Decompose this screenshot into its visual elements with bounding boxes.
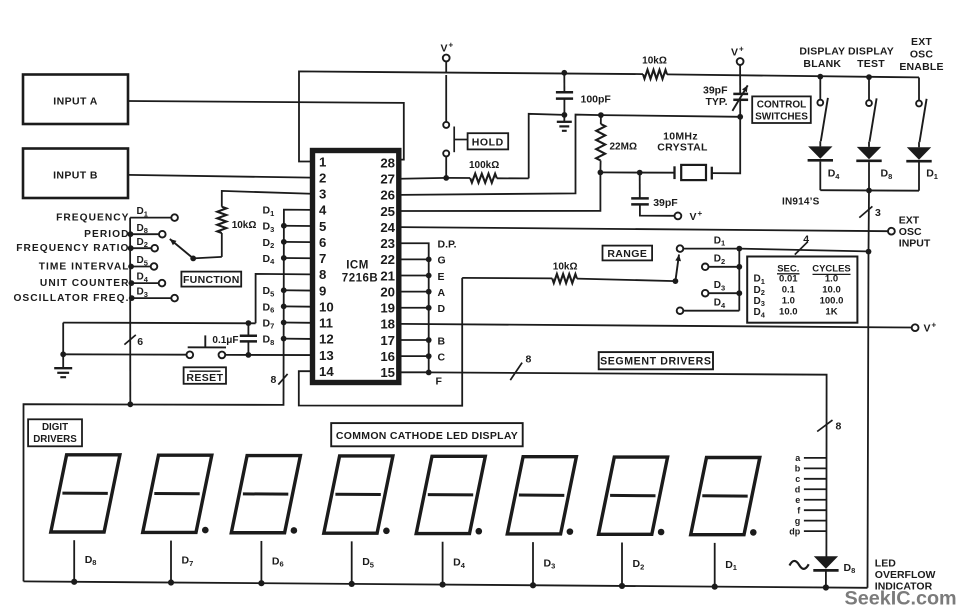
7-segment digit D4 — [416, 456, 485, 533]
svg-text:8: 8 — [319, 267, 326, 282]
svg-text:DRIVERS: DRIVERS — [33, 434, 77, 445]
junction D7 bus — [281, 320, 287, 326]
pushbutton HOLD — [445, 157, 447, 178]
digit lead D2 — [621, 543, 623, 586]
svg-text:14: 14 — [319, 364, 334, 379]
svg-text:E: E — [438, 271, 445, 283]
svg-text:SEGMENT DRIVERS: SEGMENT DRIVERS — [600, 356, 711, 368]
switch arm S5 range — [673, 278, 679, 284]
crystal Y1 10MHz — [673, 166, 675, 179]
resistor R4 22M — [600, 115, 602, 124]
terminal V+ at 39pF — [675, 213, 682, 220]
wire pin 25 to crystal node — [400, 172, 600, 211]
svg-text:INPUT A: INPUT A — [53, 96, 97, 108]
svg-text:G: G — [438, 255, 446, 267]
wire INPUT A to pin 28 — [128, 101, 404, 160]
junction 39pF top — [637, 170, 643, 176]
svg-text:3: 3 — [875, 207, 881, 219]
junction rail D3 — [530, 582, 536, 588]
svg-text:0.1μF: 0.1μF — [212, 335, 238, 346]
svg-text:A: A — [438, 287, 446, 299]
svg-text:OSC: OSC — [910, 49, 934, 61]
svg-text:V: V — [441, 43, 448, 55]
svg-text:39pF: 39pF — [653, 197, 678, 209]
7-segment digit D6 — [231, 456, 300, 533]
svg-text:8: 8 — [526, 353, 532, 365]
junction 100pF bottom — [562, 112, 568, 118]
wire segment drivers line to display — [429, 372, 827, 556]
wire V+ stub to rail — [445, 61, 447, 72]
svg-text:V: V — [690, 211, 697, 223]
svg-text:TIME INTERVAL: TIME INTERVAL — [39, 261, 130, 272]
svg-text:10.0: 10.0 — [822, 284, 841, 295]
7-segment digit D7 — [143, 455, 212, 532]
svg-text:EXT: EXT — [911, 36, 932, 48]
wire segment A pin 20 — [400, 291, 428, 293]
svg-text:100kΩ: 100kΩ — [469, 160, 499, 171]
capacitor C1 100pF — [563, 73, 565, 92]
table range timing — [747, 257, 857, 323]
range contact D1 — [677, 245, 684, 252]
digit lead D3 — [532, 542, 534, 585]
junction rail D8 — [71, 579, 77, 585]
svg-text:10.0: 10.0 — [779, 307, 798, 318]
junction range/control bus — [866, 249, 872, 255]
junction rail D1 — [712, 584, 718, 590]
range contact D3 — [702, 290, 709, 297]
svg-text:SWITCHES: SWITCHES — [755, 111, 808, 122]
range bus vertical — [738, 249, 740, 311]
bus slash 8 digit — [278, 374, 287, 385]
svg-text:13: 13 — [319, 348, 334, 363]
svg-text:COMMON CATHODE LED DISPLAY: COMMON CATHODE LED DISPLAY — [336, 430, 518, 442]
junction 22M bottom — [598, 170, 604, 176]
wire pin 14 loop to range resistor — [299, 278, 462, 406]
segment tick e — [804, 499, 827, 501]
wire segment E pin 21 — [400, 275, 428, 277]
svg-text:100pF: 100pF — [581, 94, 612, 106]
svg-text:39pF: 39pF — [703, 84, 728, 96]
junction diode rail center — [866, 188, 872, 194]
wire ground line A — [63, 322, 255, 325]
junction segment F — [426, 370, 432, 376]
wire segment B pin 17 — [400, 339, 428, 341]
LED D8 overflow — [814, 556, 838, 569]
svg-text:RANGE: RANGE — [607, 248, 647, 260]
svg-text:b: b — [795, 464, 801, 474]
junction 22M top — [598, 112, 604, 118]
segment tick g — [804, 520, 827, 522]
svg-text:CONTROL: CONTROL — [757, 99, 806, 110]
svg-text:7216B: 7216B — [342, 273, 378, 285]
resistor R1 10k function — [222, 191, 311, 207]
svg-text:UNIT COUNTER: UNIT COUNTER — [40, 278, 130, 289]
svg-text:FUNCTION: FUNCTION — [183, 274, 240, 286]
digit lead D7 — [170, 541, 172, 583]
junction pin27/hold/100k node — [443, 175, 449, 181]
bus slash 8 segment line — [510, 363, 522, 381]
switch arm S1 function — [190, 256, 196, 262]
svg-text:dp: dp — [789, 526, 800, 536]
svg-text:DIGIT: DIGIT — [42, 422, 68, 433]
wire crystal right lead — [712, 117, 740, 174]
svg-text:8: 8 — [270, 374, 276, 386]
svg-text:20: 20 — [380, 284, 395, 299]
svg-text:23: 23 — [380, 236, 395, 251]
svg-text:c: c — [795, 474, 800, 484]
display common cathode rail — [24, 581, 868, 587]
wire INPUT B to pin 2 — [128, 175, 311, 178]
switch S4 EXT OSC ENABLE — [918, 78, 920, 101]
svg-text:6: 6 — [137, 336, 143, 348]
wire pin 26 to osc node — [400, 115, 601, 195]
switch S3 DISPLAY TEST — [866, 74, 872, 80]
junction segment G — [426, 256, 432, 262]
range contact D4 — [677, 307, 684, 314]
junction rail D6 — [258, 580, 264, 586]
junction rail D2 — [619, 583, 625, 589]
digit lead D6 — [260, 541, 262, 583]
junction rail D7 — [168, 579, 174, 585]
svg-text:100.0: 100.0 — [820, 296, 844, 307]
contact D3 OSCILLATOR FREQ. — [130, 297, 171, 299]
7-segment digit D5 — [324, 456, 393, 533]
svg-text:6: 6 — [319, 235, 326, 250]
wire pin 24 to EXT OSC INPUT — [400, 227, 887, 231]
junction digit bus to display rail — [127, 401, 133, 407]
svg-text:27: 27 — [380, 172, 395, 187]
svg-text:D.P.: D.P. — [438, 239, 457, 251]
junction segment E — [426, 273, 432, 279]
input jack INPUT A — [23, 75, 128, 125]
svg-text:24: 24 — [380, 220, 395, 235]
label box DIGIT DRIVERS — [28, 419, 82, 446]
svg-text:28: 28 — [380, 155, 395, 170]
svg-text:5: 5 — [319, 219, 326, 234]
svg-text:PERIOD: PERIOD — [84, 229, 129, 240]
wire pin 27 to hold node — [400, 177, 446, 180]
label box SEGMENT DRIVERS — [599, 352, 713, 369]
ac tilde symbol — [790, 561, 809, 569]
wire pin 8 down to ground line — [256, 274, 311, 323]
wire D6 to pin 10 — [284, 305, 311, 307]
svg-text:3: 3 — [319, 187, 326, 202]
junction rail / 100pF — [561, 70, 567, 76]
svg-text:V: V — [731, 47, 738, 59]
junction D3 bus — [281, 223, 287, 229]
resistor R3 100k — [446, 177, 470, 179]
svg-text:1: 1 — [319, 154, 326, 169]
junction segment C — [426, 353, 432, 359]
svg-text:OSCILLATOR FREQ.: OSCILLATOR FREQ. — [13, 293, 129, 304]
terminal EXT OSC INPUT — [888, 228, 895, 235]
svg-text:+: + — [449, 41, 454, 50]
wire resistor to arm pivot — [193, 257, 222, 259]
wire D7 to pin 11 — [284, 322, 311, 324]
wire reset line left — [63, 353, 186, 355]
junction rail D4 — [440, 581, 446, 587]
svg-text:C: C — [438, 351, 446, 363]
svg-text:18: 18 — [380, 317, 395, 332]
contact D5 TIME INTERVAL — [130, 266, 151, 268]
wire osc node to trimmer — [601, 115, 740, 117]
wire reset to pin 13 — [225, 354, 311, 356]
svg-text:10MHz: 10MHz — [663, 130, 698, 142]
svg-text:10: 10 — [319, 299, 334, 314]
contact D2 FREQUENCY RATIO — [130, 247, 151, 249]
7-segment digit D8 — [51, 455, 120, 532]
svg-text:25: 25 — [380, 204, 395, 219]
svg-text:4: 4 — [319, 203, 327, 218]
terminal V+ top right — [737, 58, 744, 65]
wire diode cathode rail — [820, 189, 919, 192]
wire segment G pin 22 — [400, 258, 428, 260]
contact D4 UNIT COUNTER — [130, 282, 159, 284]
svg-text:FREQUENCY RATIO: FREQUENCY RATIO — [16, 243, 129, 254]
capacitor C2 39pF trimmer — [739, 65, 741, 94]
segment tick b — [804, 467, 827, 469]
wire range D1 to control bus — [739, 249, 866, 252]
junction D8 bus — [281, 336, 287, 342]
digit lead D5 — [351, 541, 353, 584]
svg-text:EXT: EXT — [899, 214, 920, 226]
svg-text:ICM: ICM — [346, 260, 369, 272]
wire D2 to pin 6 — [284, 241, 311, 243]
wire segment D pin 19 — [400, 307, 428, 309]
junction D5 bus — [281, 287, 287, 293]
svg-text:22MΩ: 22MΩ — [610, 142, 637, 153]
wire crystal left lead — [600, 171, 674, 173]
svg-text:B: B — [438, 335, 446, 347]
bus slash 3 — [859, 206, 872, 217]
wire V+ rail right — [667, 74, 919, 77]
svg-text:DISPLAY: DISPLAY — [848, 45, 894, 57]
svg-text:F: F — [436, 376, 443, 388]
svg-text:e: e — [795, 495, 800, 505]
svg-text:26: 26 — [380, 188, 395, 203]
terminal V+ right — [912, 324, 919, 331]
label box RESET with overline — [184, 367, 226, 384]
wire segment C pin 16 — [400, 355, 428, 357]
wire pin 15 F — [400, 371, 428, 373]
svg-text:HOLD: HOLD — [472, 136, 504, 148]
segment tick c — [804, 478, 827, 480]
wire D8 to pin 12 — [284, 338, 311, 340]
svg-text:INPUT: INPUT — [899, 237, 931, 249]
switch S2 DISPLAY BLANK — [817, 74, 823, 80]
bus slash 6 — [124, 335, 135, 345]
svg-text:10kΩ: 10kΩ — [232, 220, 257, 231]
svg-text:OSC: OSC — [899, 226, 922, 238]
junction trimmer/crystal node — [737, 114, 743, 120]
wire 100k to 100pF bottom — [529, 114, 565, 179]
svg-text:g: g — [795, 516, 801, 526]
capacitor C3 39pF fixed — [639, 173, 641, 198]
svg-text:1K: 1K — [825, 307, 837, 318]
svg-text:IN914’S: IN914’S — [782, 197, 820, 208]
bus slash 8 segment down — [817, 420, 832, 431]
svg-text:D: D — [438, 303, 446, 315]
svg-text:0.1: 0.1 — [782, 284, 796, 295]
junction range D3 — [736, 290, 742, 296]
bus slash 4 — [795, 242, 808, 255]
svg-text:4: 4 — [803, 234, 809, 246]
svg-text:21: 21 — [380, 268, 395, 283]
label box CONTROL SWITCHES — [752, 96, 811, 123]
svg-text:+: + — [739, 45, 744, 54]
svg-text:12: 12 — [319, 332, 334, 347]
svg-text:OVERFLOW: OVERFLOW — [875, 569, 936, 581]
svg-text:TEST: TEST — [857, 58, 885, 70]
svg-text:SeekIC.com: SeekIC.com — [845, 588, 957, 610]
svg-text:15: 15 — [380, 365, 395, 380]
junction segment A — [426, 289, 432, 295]
svg-text:1.0: 1.0 — [782, 296, 795, 307]
segment tick dp — [804, 530, 827, 532]
svg-text:CRYSTAL: CRYSTAL — [657, 142, 708, 154]
range contact D2 — [702, 264, 709, 271]
control bus 3-wire down to display rail — [868, 191, 870, 588]
svg-text:7: 7 — [319, 251, 326, 266]
contact D1 FREQUENCY — [130, 217, 171, 219]
junction segment D — [426, 305, 432, 311]
svg-text:19: 19 — [380, 301, 395, 316]
segment tick d — [804, 488, 827, 490]
op-amp U1 ICM7216B body — [313, 151, 399, 383]
svg-text:d: d — [795, 484, 801, 494]
input jack INPUT B — [23, 149, 128, 199]
svg-text:RESET: RESET — [186, 372, 223, 384]
digit lead D4 — [442, 542, 444, 585]
wire D5 to pin 9 — [284, 289, 311, 291]
segment tick f — [804, 509, 827, 511]
resistor R5 10k range — [462, 277, 552, 280]
junction range D1 — [736, 246, 742, 252]
digit bus left of IC — [24, 210, 312, 582]
label box COMMON CATHODE LED DISPLAY — [331, 423, 523, 446]
junction D4 bus — [281, 255, 287, 261]
wire D3 to pin 5 — [284, 225, 311, 227]
svg-text:9: 9 — [319, 283, 326, 298]
svg-text:INPUT B: INPUT B — [53, 170, 98, 182]
svg-text:ENABLE: ENABLE — [899, 61, 943, 73]
digit lead D8 — [73, 540, 75, 582]
7-segment digit D1 — [691, 457, 760, 534]
svg-text:TYP.: TYP. — [706, 96, 728, 108]
svg-text:1.0: 1.0 — [825, 273, 838, 284]
svg-text:+: + — [698, 209, 703, 218]
digit lead D1 — [714, 543, 716, 587]
svg-text:V: V — [924, 323, 931, 335]
junction ground / reset line — [60, 351, 66, 357]
capacitor C4 0.1uF — [246, 320, 252, 326]
svg-text:BLANK: BLANK — [803, 58, 841, 70]
svg-text:FREQUENCY: FREQUENCY — [56, 212, 129, 223]
ground GND2 — [62, 323, 64, 368]
wire pin 1 to V+ rail — [299, 71, 643, 161]
svg-text:8: 8 — [836, 420, 842, 432]
junction D6 bus — [281, 303, 287, 309]
7-segment digit D2 — [599, 457, 668, 534]
svg-text:10kΩ: 10kΩ — [553, 261, 578, 272]
junction rail D5 — [349, 581, 355, 587]
svg-text:DISPLAY: DISPLAY — [799, 45, 845, 57]
contact D8 PERIOD — [130, 233, 159, 235]
wire D4 to pin 7 — [284, 257, 311, 259]
svg-text:LED: LED — [875, 557, 896, 569]
label box RANGE — [603, 246, 653, 261]
junction range D2 — [736, 264, 742, 270]
function select bus — [129, 218, 131, 405]
svg-text:22: 22 — [380, 252, 395, 267]
terminal V+ top center — [443, 55, 450, 62]
svg-text:+: + — [932, 321, 937, 330]
segment tick a — [804, 457, 827, 459]
svg-text:2: 2 — [319, 170, 326, 185]
7-segment digit D3 — [507, 457, 576, 534]
junction D2 bus — [281, 239, 287, 245]
svg-text:11: 11 — [319, 316, 333, 331]
junction 0.1uF bottom — [246, 352, 252, 358]
label box FUNCTION — [181, 272, 241, 287]
resistor R2 10k — [643, 70, 667, 79]
svg-text:10kΩ: 10kΩ — [642, 56, 667, 67]
svg-text:16: 16 — [380, 349, 395, 364]
label box HOLD — [468, 133, 509, 149]
pushbutton RESET — [186, 351, 193, 358]
ground GND1 at 100pF — [563, 115, 565, 121]
wire pin 18 to V+ terminal — [400, 324, 911, 328]
svg-text:17: 17 — [380, 333, 395, 348]
junction segment B — [426, 337, 432, 343]
svg-text:0.01: 0.01 — [779, 273, 798, 284]
segment bus right of IC — [400, 243, 428, 372]
